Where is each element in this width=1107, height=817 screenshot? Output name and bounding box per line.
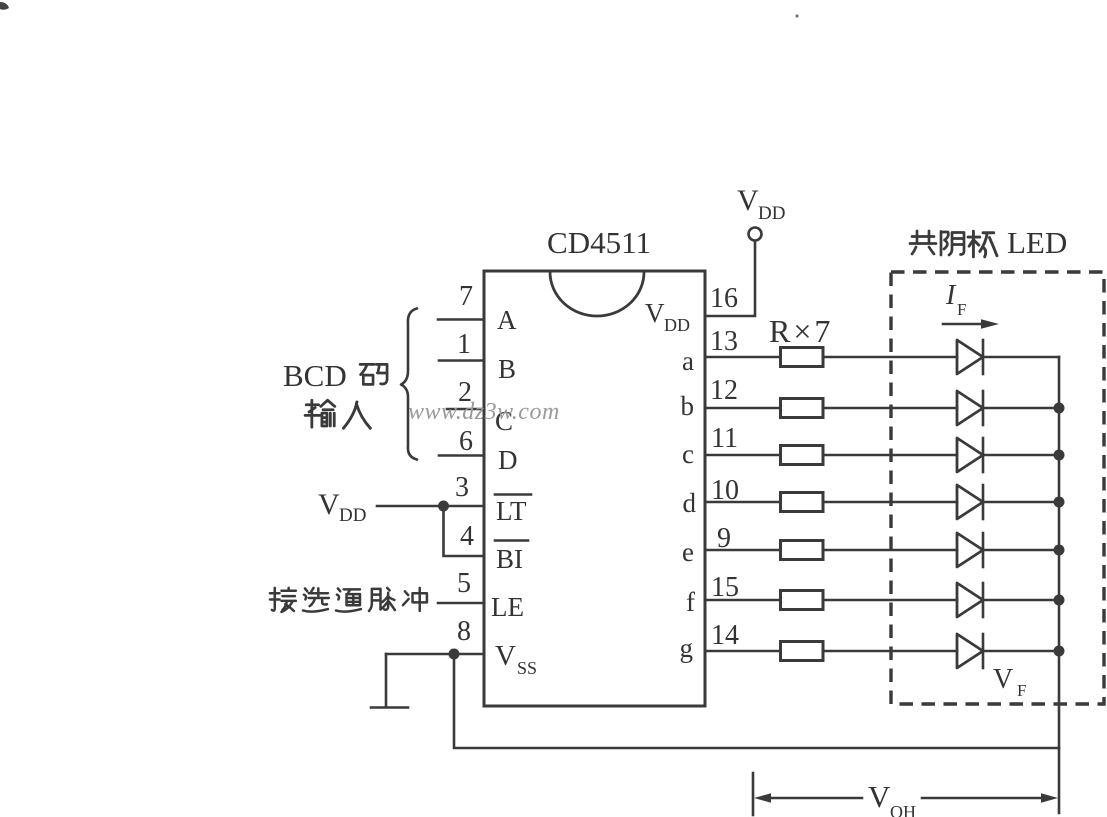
svg-text:B: B	[498, 354, 516, 384]
svg-text:15: 15	[711, 572, 739, 603]
wire resistor R3 to LED D3	[823, 454, 957, 457]
LED D6	[957, 583, 983, 617]
pin label VDD inside IC	[645, 298, 690, 335]
svg-text:8: 8	[457, 616, 471, 647]
pin label VSS	[495, 640, 537, 678]
hanzi MAI of strobe label	[369, 588, 395, 611]
junction dot bus row e	[1054, 545, 1065, 556]
svg-text:5: 5	[457, 568, 471, 599]
wire LED D4 to cathode bus	[983, 501, 1059, 504]
junction dot on VSS wire	[449, 649, 460, 660]
junction dot bus row d	[1054, 497, 1065, 508]
hanzi JI of common-cathode LED title	[968, 231, 997, 257]
pin label BI with overline	[495, 541, 528, 575]
wire pin c to resistor R3	[705, 454, 780, 457]
wire pin g to resistor R7	[705, 650, 780, 653]
resistor R7	[781, 642, 824, 661]
svg-text:7: 7	[459, 281, 473, 312]
VOH dimension arrows	[754, 793, 1058, 803]
svg-text:a: a	[682, 346, 694, 376]
junction dot on LT wire	[438, 501, 449, 512]
wire pin d to resistor R4	[705, 501, 780, 504]
LED D3	[957, 438, 983, 472]
svg-text:3: 3	[455, 472, 469, 503]
current label IF	[945, 280, 966, 319]
svg-text:BCD: BCD	[283, 358, 347, 393]
svg-text:DD: DD	[339, 505, 366, 526]
svg-text:d: d	[683, 488, 697, 518]
svg-text:4: 4	[460, 521, 474, 552]
VDD net label top	[737, 184, 785, 224]
wire resistor R7 to LED D7	[823, 650, 957, 653]
pin 7 stub wire	[438, 318, 484, 321]
svg-text:c: c	[682, 439, 694, 469]
resistor R1	[781, 348, 824, 367]
IC U1 CD4511 body	[484, 271, 705, 706]
hanzi XUAN of strobe label	[303, 588, 329, 612]
junction dot bus row f	[1054, 595, 1065, 606]
svg-text:1: 1	[457, 329, 471, 360]
wire resistor R6 to LED D6	[823, 599, 957, 602]
wire VDD to pin 3 LT	[377, 505, 484, 508]
dashed enclosure common-cathode LED block	[891, 272, 1104, 704]
junction dot bus row b	[1054, 403, 1065, 414]
LED D2	[957, 391, 983, 425]
svg-text:I: I	[945, 280, 957, 311]
svg-text:www.dz3w.com: www.dz3w.com	[408, 399, 560, 425]
svg-text:LED: LED	[1007, 225, 1067, 260]
hanzi CHONG of strobe label	[403, 588, 427, 611]
hanzi RU (input) of input label	[343, 402, 370, 428]
resistor R5	[781, 541, 824, 560]
wire LED D3 to cathode bus	[983, 454, 1059, 457]
hanzi SHU (input) of input label	[305, 400, 335, 427]
junction dot bus row g	[1054, 646, 1065, 657]
svg-text:6: 6	[459, 426, 473, 457]
bottom return wire from VSS junction to cathode bus	[454, 654, 1059, 748]
VDD net label left	[318, 488, 366, 526]
wire resistor R5 to LED D5	[823, 549, 957, 552]
wire pin f to resistor R6	[705, 599, 780, 602]
pin 6 stub wire	[439, 454, 484, 457]
cathode bus vertical wire	[1058, 357, 1061, 813]
wire LED D1 to cathode bus corner	[983, 356, 1059, 359]
wire LED D2 to cathode bus	[983, 407, 1059, 410]
scan speck top-left corner	[0, 2, 9, 10]
wire resistor R4 to LED D4	[823, 501, 957, 504]
svg-text:A: A	[497, 305, 517, 335]
wire pin a to resistor R1	[705, 356, 780, 359]
VOH dimension left tick	[752, 773, 755, 815]
svg-text:e: e	[682, 537, 694, 567]
svg-text:V: V	[868, 779, 891, 814]
hanzi TONG of strobe label	[336, 588, 361, 611]
pin label LT with overline	[495, 495, 531, 527]
wire ground to pin 8 VSS	[386, 653, 484, 656]
wire pin b to resistor R2	[705, 407, 780, 410]
svg-text:V: V	[993, 664, 1013, 695]
wire LED D6 to cathode bus	[983, 599, 1059, 602]
LED D5	[957, 533, 983, 567]
hanzi MA (code) of BCD input label	[360, 364, 387, 384]
LED D4	[957, 485, 983, 519]
junction dot bus row c	[1054, 450, 1065, 461]
svg-text:D: D	[498, 445, 518, 475]
svg-text:V: V	[645, 298, 665, 328]
brace for BCD inputs	[401, 309, 417, 460]
hanzi GONG of common-cathode LED title	[910, 231, 936, 254]
svg-text:F: F	[957, 300, 966, 319]
VDD terminal circle	[749, 228, 762, 241]
voltage label VOH	[868, 779, 916, 817]
svg-text:12: 12	[710, 375, 738, 406]
ground symbol	[371, 654, 408, 708]
svg-text:OH: OH	[890, 802, 916, 817]
svg-text:LE: LE	[491, 592, 524, 622]
svg-text:BI: BI	[496, 544, 523, 574]
svg-text:SS: SS	[517, 658, 537, 678]
wire from junction down to pin 4 BI	[444, 506, 485, 556]
svg-text:DD: DD	[664, 315, 690, 335]
voltage label VF	[993, 664, 1026, 700]
resistor R2	[781, 399, 824, 418]
LED D7	[957, 634, 983, 668]
pin 16 stub wire and VDD terminal riser	[705, 241, 755, 316]
LED D1	[957, 340, 983, 374]
svg-text:V: V	[495, 640, 516, 672]
svg-text:f: f	[686, 587, 695, 617]
resistor R3	[781, 446, 824, 465]
svg-text:V: V	[318, 488, 340, 521]
pin 2 stub wire	[447, 408, 484, 411]
svg-text:F: F	[1017, 681, 1026, 700]
hanzi YIN of common-cathode LED title	[941, 232, 964, 256]
svg-text:14: 14	[711, 620, 739, 651]
pin 1 stub wire	[439, 359, 484, 362]
wire LED D7 to cathode bus	[983, 650, 1059, 653]
wire resistor R1 to LED D1	[823, 356, 957, 359]
svg-text:DD: DD	[758, 203, 785, 224]
resistor R6	[781, 591, 824, 610]
scan speck top-centre	[795, 14, 798, 17]
wire resistor R2 to LED D2	[823, 407, 957, 410]
svg-text:b: b	[681, 391, 695, 421]
wire LED D5 to cathode bus	[983, 549, 1059, 552]
resistor R4	[781, 493, 824, 512]
svg-text:16: 16	[710, 283, 738, 314]
svg-text:V: V	[737, 184, 759, 217]
wire pin e to resistor R5	[705, 549, 780, 552]
current arrow IF	[943, 319, 999, 329]
svg-text:CD4511: CD4511	[547, 225, 651, 260]
svg-text:R×7: R×7	[769, 313, 833, 349]
svg-text:g: g	[680, 633, 694, 663]
svg-text:LT: LT	[496, 496, 527, 526]
svg-text:13: 13	[710, 326, 738, 357]
hanzi JIE of strobe label	[270, 588, 296, 612]
svg-text:11: 11	[711, 423, 738, 454]
pin 5 stub wire	[438, 602, 484, 605]
